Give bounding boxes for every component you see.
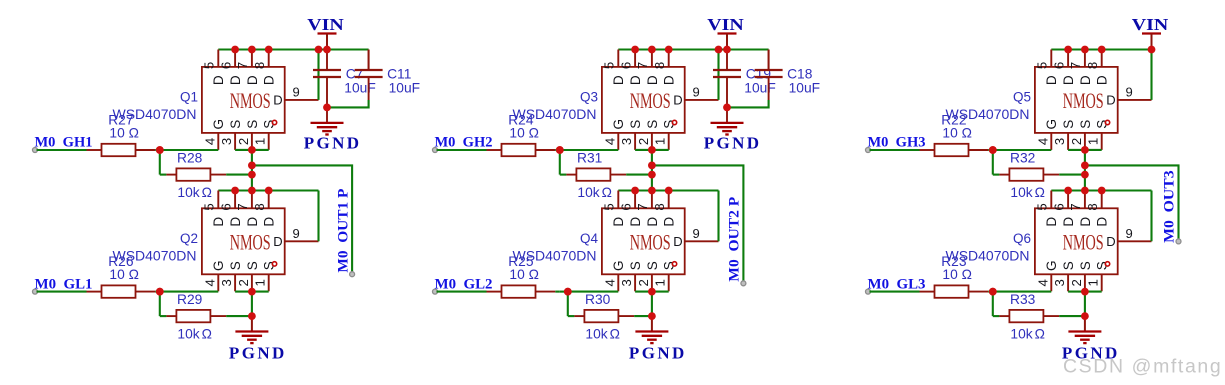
wire M0_GL1 to R26 <box>37 291 87 293</box>
svg-text:VIN: VIN <box>1132 15 1169 34</box>
wire pin9 riser Q3 <box>717 50 719 100</box>
svg-text:D: D <box>273 93 282 108</box>
svg-text:10kΩ: 10kΩ <box>1010 327 1045 342</box>
junction on drain rail <box>665 187 673 195</box>
svg-text:NMOS: NMOS <box>230 90 271 114</box>
transistor Q2 (NMOS, WSD4070DN) <box>202 191 319 292</box>
svg-text:M0 OUT1 P: M0 OUT1 P <box>335 189 351 273</box>
svg-text:D: D <box>673 234 682 249</box>
svg-text:D: D <box>1106 234 1115 249</box>
port M0_GH1 <box>33 148 38 153</box>
svg-text:2: 2 <box>636 138 651 145</box>
svg-text:1: 1 <box>1086 279 1101 286</box>
junction on VIN rail <box>648 46 656 54</box>
svg-text:7: 7 <box>1068 62 1083 69</box>
svg-text:Q2: Q2 <box>180 231 198 246</box>
lead C11 bottom <box>368 77 370 100</box>
wire C11 to ground node <box>327 100 369 107</box>
svg-text:D: D <box>262 217 277 227</box>
svg-text:2: 2 <box>1069 279 1084 286</box>
svg-text:5: 5 <box>202 62 217 69</box>
junction on drain rail <box>1098 187 1106 195</box>
svg-text:9: 9 <box>1126 226 1133 241</box>
resistor R27 10 Ohm <box>87 149 102 151</box>
wire ground stub <box>651 316 653 331</box>
junction gate high <box>156 146 164 154</box>
svg-text:D: D <box>662 217 677 227</box>
junction at R30 input <box>564 288 572 296</box>
svg-text:D: D <box>245 75 260 85</box>
junction on VIN rail <box>1081 46 1089 54</box>
junction on VIN rail <box>248 46 256 54</box>
wire VIN rail <box>1051 48 1151 50</box>
wire junction down to R31 <box>559 150 561 175</box>
svg-text:10kΩ: 10kΩ <box>177 185 212 200</box>
junction on VIN rail <box>1064 46 1072 54</box>
wire junction down to R32 <box>992 150 994 175</box>
resistor R29 10k <box>166 315 176 317</box>
junction source low <box>648 288 656 296</box>
svg-text:10 Ω: 10 Ω <box>109 126 138 141</box>
wire junction to Q6 gate <box>993 291 1052 293</box>
svg-text:D: D <box>1061 217 1076 227</box>
svg-text:5: 5 <box>202 203 217 210</box>
wire junction down to R33 <box>992 292 994 317</box>
svg-text:NMOS: NMOS <box>630 90 671 114</box>
wire phase node to output port <box>652 165 744 283</box>
junction on drain rail <box>248 187 256 195</box>
svg-text:D: D <box>1078 75 1093 85</box>
resistor R24 10 Ohm <box>487 149 502 151</box>
junction riser <box>715 46 723 54</box>
svg-text:3: 3 <box>219 138 234 145</box>
wire ground stub <box>1084 316 1086 331</box>
power VIN bar <box>1142 32 1161 34</box>
lead C19 bottom <box>726 77 728 123</box>
svg-text:8: 8 <box>252 62 267 69</box>
wire pin9 riser Q5 <box>1150 50 1152 100</box>
wire M0_GH2 to R24 <box>437 149 487 151</box>
resistor R25 10 Ohm <box>487 291 502 293</box>
junction source high <box>248 146 256 154</box>
junction source high <box>1081 146 1089 154</box>
svg-text:R32: R32 <box>1010 151 1035 166</box>
svg-text:8: 8 <box>1085 62 1100 69</box>
svg-text:D: D <box>673 93 682 108</box>
wire R29 to node <box>226 315 252 317</box>
wire Q4 source pins <box>635 291 669 293</box>
wire Q3 source pins <box>635 149 669 151</box>
wire source to ground node <box>651 292 653 317</box>
ground PGND top <box>311 122 344 124</box>
svg-text:6: 6 <box>618 203 633 210</box>
svg-text:10kΩ: 10kΩ <box>1010 185 1045 200</box>
svg-text:D: D <box>1095 217 1110 227</box>
power VIN bar <box>318 32 337 34</box>
svg-text:D: D <box>645 217 660 227</box>
junction R R32 node <box>1081 171 1089 179</box>
svg-text:10kΩ: 10kΩ <box>177 327 212 342</box>
svg-text:M0 GH3: M0 GH3 <box>868 135 926 151</box>
wire Q6 source pins <box>1068 291 1102 293</box>
svg-text:7: 7 <box>235 203 250 210</box>
ground PGND bottom <box>635 330 668 332</box>
svg-text:Q1: Q1 <box>180 90 198 105</box>
junction on drain rail <box>648 187 656 195</box>
junction R R28 node <box>248 171 256 179</box>
svg-text:8: 8 <box>652 62 667 69</box>
resistor R33 10k <box>999 315 1009 317</box>
svg-text:5: 5 <box>602 203 617 210</box>
svg-text:G: G <box>1044 119 1059 130</box>
lead C7 bottom <box>326 77 328 123</box>
svg-text:3: 3 <box>619 138 634 145</box>
junction R30 to ground <box>648 312 656 320</box>
svg-text:D: D <box>662 75 677 85</box>
svg-text:3: 3 <box>619 279 634 286</box>
svg-text:NMOS: NMOS <box>1063 232 1104 256</box>
port M0_OUT3 <box>1176 239 1181 244</box>
svg-text:M0 GH2: M0 GH2 <box>435 135 493 151</box>
junction at R28 input <box>156 146 164 154</box>
svg-text:Q5: Q5 <box>1013 90 1031 105</box>
svg-text:D: D <box>1044 75 1059 85</box>
ground PGND bottom <box>1068 330 1101 332</box>
svg-text:2: 2 <box>636 279 651 286</box>
svg-text:1: 1 <box>253 279 268 286</box>
svg-text:D: D <box>211 217 226 227</box>
junction gate high <box>556 146 564 154</box>
wire pin9 riser Q4 <box>717 191 719 242</box>
svg-text:1: 1 <box>1086 138 1101 145</box>
wire C18 to ground node <box>727 100 769 107</box>
wire M0_GL2 to R25 <box>437 291 487 293</box>
svg-text:9: 9 <box>1126 85 1133 100</box>
svg-text:R29: R29 <box>177 292 203 307</box>
svg-text:S: S <box>645 120 660 129</box>
wire pin9 riser Q2 <box>317 191 319 242</box>
svg-text:10uF: 10uF <box>344 80 375 95</box>
svg-text:D: D <box>611 75 626 85</box>
wire C11 top drop <box>368 50 370 71</box>
wire junction to Q1 gate <box>160 149 219 151</box>
transistor Q3 (NMOS, WSD4070DN) <box>602 50 719 150</box>
wire C11 top drop <box>768 50 770 71</box>
junction on VIN rail <box>631 46 639 54</box>
wire R25 to junction <box>555 291 560 293</box>
svg-text:D: D <box>1044 217 1059 227</box>
svg-text:10 Ω: 10 Ω <box>942 126 972 141</box>
svg-text:4: 4 <box>202 279 217 286</box>
svg-text:10kΩ: 10kΩ <box>585 327 620 342</box>
svg-text:S: S <box>1078 261 1093 270</box>
svg-text:3: 3 <box>1052 279 1067 286</box>
svg-text:M0 OUT3: M0 OUT3 <box>1162 170 1178 243</box>
svg-text:NMOS: NMOS <box>230 232 271 256</box>
svg-text:R33: R33 <box>1010 292 1036 307</box>
svg-text:9: 9 <box>293 85 300 100</box>
junction on VIN rail <box>231 46 239 54</box>
wire R24 to junction <box>555 149 560 151</box>
svg-text:10uF: 10uF <box>789 80 820 95</box>
wire ground stub <box>251 316 253 331</box>
svg-text:8: 8 <box>652 203 667 210</box>
svg-text:D: D <box>1078 217 1093 227</box>
svg-text:1: 1 <box>653 279 668 286</box>
junction gate low <box>989 288 997 296</box>
junction gate low <box>156 288 164 296</box>
svg-text:M0 GH1: M0 GH1 <box>35 135 93 151</box>
svg-text:D: D <box>262 75 277 85</box>
svg-text:2: 2 <box>236 279 251 286</box>
junction R33 to ground <box>1081 312 1089 320</box>
svg-text:2: 2 <box>1069 138 1084 145</box>
wire R32 to node <box>1059 174 1085 176</box>
junction on VIN rail <box>1098 46 1106 54</box>
svg-text:S: S <box>1078 120 1093 129</box>
wire M0_GH1 to R27 <box>37 149 87 151</box>
svg-text:D: D <box>645 75 660 85</box>
wire phase node to output port <box>252 165 352 274</box>
wire M0_GL3 to R23 <box>870 291 920 293</box>
svg-text:PGND: PGND <box>304 133 362 152</box>
wire Q1 source pins <box>235 149 269 151</box>
junction on drain rail <box>1064 187 1072 195</box>
ground PGND bottom <box>235 330 268 332</box>
resistor R28 10k <box>166 174 176 176</box>
junction source high <box>648 146 656 154</box>
svg-text:3: 3 <box>1052 138 1067 145</box>
junction on drain rail <box>1081 187 1089 195</box>
svg-text:D: D <box>228 217 243 227</box>
junction R R31 node <box>648 171 656 179</box>
svg-text:4: 4 <box>602 279 617 286</box>
svg-text:S: S <box>228 120 243 129</box>
junction cap ground <box>723 104 731 112</box>
svg-text:G: G <box>611 119 626 130</box>
wire VIN rail <box>618 48 768 50</box>
wire junction down to R28 <box>159 150 161 175</box>
wire source to ground node <box>1084 292 1086 317</box>
svg-text:9: 9 <box>293 226 300 241</box>
ground PGND top <box>711 122 744 124</box>
svg-text:Q4: Q4 <box>580 231 599 246</box>
transistor Q5 (NMOS, WSD4070DN) <box>1035 50 1152 150</box>
svg-text:NMOS: NMOS <box>630 232 671 256</box>
svg-text:4: 4 <box>1035 138 1050 145</box>
svg-text:10 Ω: 10 Ω <box>509 126 539 141</box>
svg-text:8: 8 <box>1085 203 1100 210</box>
svg-text:1: 1 <box>253 138 268 145</box>
svg-text:C18: C18 <box>787 66 813 81</box>
capacitor C19 10uF <box>713 69 741 71</box>
svg-text:10 Ω: 10 Ω <box>509 267 539 282</box>
svg-text:7: 7 <box>635 203 650 210</box>
svg-text:6: 6 <box>218 203 233 210</box>
junction R29 to ground <box>248 312 256 320</box>
svg-text:Q3: Q3 <box>580 90 598 105</box>
svg-text:1: 1 <box>653 138 668 145</box>
wire R23 to junction <box>988 291 993 293</box>
svg-text:C11: C11 <box>387 66 411 81</box>
svg-text:6: 6 <box>1051 62 1066 69</box>
transistor Q1 (NMOS, WSD4070DN) <box>202 50 319 150</box>
svg-text:7: 7 <box>1068 203 1083 210</box>
svg-text:D: D <box>628 217 643 227</box>
svg-text:C19: C19 <box>746 66 772 81</box>
wire Q6 drain rail <box>1051 189 1151 191</box>
port M0_GH2 <box>433 148 438 153</box>
capacitor C18 10uF <box>755 69 783 71</box>
svg-text:6: 6 <box>1051 203 1066 210</box>
svg-text:PGND: PGND <box>704 133 762 152</box>
svg-text:D: D <box>611 217 626 227</box>
svg-text:4: 4 <box>1035 279 1050 286</box>
port M0_GL1 <box>33 289 38 294</box>
svg-text:D: D <box>273 234 282 249</box>
svg-text:4: 4 <box>202 138 217 145</box>
wire R26 to junction <box>155 291 160 293</box>
svg-text:5: 5 <box>1035 62 1050 69</box>
junction source low <box>1081 288 1089 296</box>
transistor Q6 (NMOS, WSD4070DN) <box>1035 191 1152 292</box>
svg-text:S: S <box>645 261 660 270</box>
junction riser <box>315 46 323 54</box>
svg-text:M0 GL2: M0 GL2 <box>435 276 493 292</box>
svg-text:6: 6 <box>618 62 633 69</box>
wire extension <box>560 291 568 293</box>
svg-text:PGND: PGND <box>629 344 687 363</box>
wire R31 to node <box>626 174 652 176</box>
transistor Q4 (NMOS, WSD4070DN) <box>602 191 719 292</box>
wire Q2 drain rail <box>218 189 318 191</box>
svg-text:G: G <box>211 260 226 271</box>
junction gate low <box>564 288 572 296</box>
resistor R23 10 Ohm <box>920 291 935 293</box>
svg-text:2: 2 <box>236 138 251 145</box>
wire junction down to R29 <box>159 292 161 317</box>
junction on drain rail <box>231 187 239 195</box>
svg-text:5: 5 <box>1035 203 1050 210</box>
wire R27 to junction <box>155 149 160 151</box>
junction phase out <box>248 162 256 170</box>
svg-text:S: S <box>628 261 643 270</box>
wire junction down to R30 <box>567 292 569 317</box>
wire R30 to node <box>634 315 652 317</box>
resistor R32 10k <box>999 174 1009 176</box>
wire phase vertical <box>651 150 653 191</box>
junction on drain rail <box>631 187 639 195</box>
resistor R31 10k <box>566 174 576 176</box>
junction riser <box>1148 46 1156 54</box>
port M0_GL2 <box>433 289 438 294</box>
wire VIN rail <box>218 48 368 50</box>
svg-text:G: G <box>611 260 626 271</box>
wire junction to Q4 gate <box>568 291 619 293</box>
junction source low <box>248 288 256 296</box>
svg-text:S: S <box>1061 120 1076 129</box>
svg-text:10uF: 10uF <box>744 80 775 95</box>
wire junction to Q2 gate <box>160 291 219 293</box>
svg-text:7: 7 <box>635 62 650 69</box>
wire Q4 drain rail <box>618 189 718 191</box>
junction phase out <box>1081 162 1089 170</box>
wire R28 to node <box>226 174 252 176</box>
port M0_OUT2 P <box>741 281 746 286</box>
svg-text:D: D <box>628 75 643 85</box>
svg-text:M0 GL3: M0 GL3 <box>868 276 926 292</box>
svg-text:8: 8 <box>252 203 267 210</box>
capacitor C11 10uF <box>355 69 383 71</box>
resistor R30 10k <box>574 315 584 317</box>
junction at R29 input <box>156 288 164 296</box>
svg-text:D: D <box>1061 75 1076 85</box>
svg-text:S: S <box>1061 261 1076 270</box>
svg-text:S: S <box>228 261 243 270</box>
svg-text:9: 9 <box>693 226 700 241</box>
svg-text:VIN: VIN <box>707 15 744 34</box>
wire phase vertical <box>251 150 253 191</box>
svg-text:G: G <box>211 119 226 130</box>
resistor R22 10 Ohm <box>920 149 935 151</box>
port M0_OUT1 P <box>350 272 355 277</box>
svg-text:S: S <box>245 120 260 129</box>
svg-text:6: 6 <box>218 62 233 69</box>
junction on VIN rail <box>265 46 273 54</box>
svg-text:3: 3 <box>219 279 234 286</box>
capacitor C7 10uF <box>313 69 341 71</box>
svg-text:R30: R30 <box>585 292 611 307</box>
junction on VIN rail <box>665 46 673 54</box>
wire Q5 source pins <box>1068 149 1102 151</box>
junction gate high <box>989 146 997 154</box>
power VIN bar <box>718 32 737 34</box>
svg-text:S: S <box>245 261 260 270</box>
port M0_GL3 <box>866 289 871 294</box>
svg-text:R28: R28 <box>177 151 203 166</box>
junction C top <box>723 46 731 54</box>
wire M0_GH3 to R22 <box>870 149 920 151</box>
junction C top <box>323 46 331 54</box>
svg-text:9: 9 <box>693 85 700 100</box>
svg-text:10 Ω: 10 Ω <box>942 267 972 282</box>
junction at R32 input <box>989 146 997 154</box>
wire Q2 source pins <box>235 291 269 293</box>
wire phase vertical <box>1084 150 1086 191</box>
junction cap ground <box>323 104 331 112</box>
svg-text:NMOS: NMOS <box>1063 90 1104 114</box>
wire pin9 riser Q1 <box>317 50 319 100</box>
resistor R26 10 Ohm <box>87 291 102 293</box>
svg-text:D: D <box>1095 75 1110 85</box>
wire junction to Q5 gate <box>993 149 1052 151</box>
port M0_GH3 <box>866 148 871 153</box>
svg-text:CSDN @mftang: CSDN @mftang <box>1063 355 1222 377</box>
svg-text:M0 GL1: M0 GL1 <box>35 276 93 292</box>
wire R22 to junction <box>988 149 993 151</box>
svg-text:D: D <box>245 217 260 227</box>
lead C18 bottom <box>768 77 770 100</box>
wire R33 to node <box>1059 315 1085 317</box>
svg-text:PGND: PGND <box>229 344 287 363</box>
svg-text:10uF: 10uF <box>389 80 420 95</box>
junction at R31 input <box>556 146 564 154</box>
junction on drain rail <box>265 187 273 195</box>
wire junction to Q3 gate <box>560 149 619 151</box>
wire pin9 riser Q6 <box>1150 191 1152 242</box>
svg-text:M0 OUT2 P: M0 OUT2 P <box>727 197 743 282</box>
junction at R33 input <box>989 288 997 296</box>
